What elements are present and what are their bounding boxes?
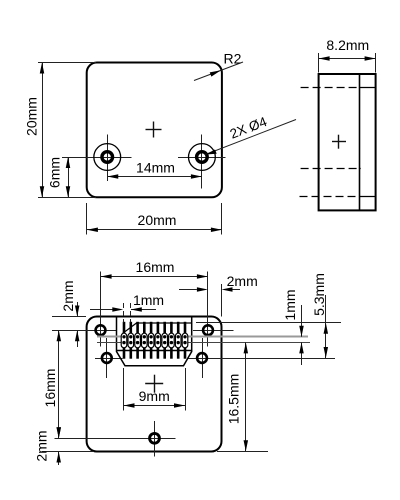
- dimension 20mm horizontal bottom: [87, 203, 222, 235]
- svg-text:1mm: 1mm: [133, 292, 164, 308]
- leader 2X D4: [206, 114, 297, 155]
- svg-text:6mm: 6mm: [47, 157, 63, 188]
- corner circle mid-right: [197, 353, 207, 363]
- front view center mark: [146, 122, 162, 138]
- connector contact dots: [122, 335, 186, 344]
- corner circle mid-right centerlines: [188, 338, 336, 378]
- corner circle top-right centerlines: [193, 272, 234, 347]
- dimension 2mm top right: [179, 273, 258, 317]
- side view hidden line bottom: [300, 196, 376, 198]
- svg-text:14mm: 14mm: [136, 159, 175, 175]
- pin pitch extension lines (dashed): [124, 303, 131, 323]
- corner circle mid-left centerlines: [95, 338, 123, 378]
- bottom hole centerlines: [55, 421, 176, 457]
- side view hidden line middle: [301, 168, 361, 170]
- svg-text:16.5mm: 16.5mm: [226, 374, 242, 425]
- svg-text:R2: R2: [224, 51, 242, 67]
- bottom view center mark: [145, 375, 163, 393]
- hole left (2X D4): [94, 144, 121, 171]
- dimension 20mm vertical left: [24, 63, 97, 198]
- svg-text:20mm: 20mm: [138, 212, 177, 228]
- svg-text:1mm: 1mm: [282, 289, 298, 320]
- side view hidden line top: [301, 87, 376, 89]
- side view outline: [319, 74, 376, 210]
- connector row centerlines: [97, 337, 310, 343]
- svg-text:16mm: 16mm: [136, 259, 175, 275]
- connector housing outline: [117, 317, 192, 366]
- dimension 1mm top: [90, 292, 164, 312]
- corner circle mid-left: [102, 353, 112, 363]
- svg-text:2mm: 2mm: [60, 280, 76, 311]
- corner circle top-right: [203, 325, 213, 335]
- svg-text:20mm: 20mm: [24, 97, 40, 136]
- svg-text:2mm: 2mm: [34, 430, 50, 461]
- dimension 8.2mm: [319, 37, 376, 73]
- bottom hole: [150, 433, 160, 443]
- extension line housing top right: [196, 322, 341, 324]
- dimension 16mm left: [42, 330, 61, 438]
- dimension 2mm left top: [52, 280, 86, 347]
- bottom view board outline: [87, 317, 222, 452]
- front view board outline: [87, 63, 222, 198]
- dimension 1mm right: [282, 289, 304, 365]
- dimension 2mm left bottom: [34, 425, 94, 465]
- svg-text:16mm: 16mm: [42, 369, 58, 408]
- leader R2: [194, 51, 243, 81]
- connector pins bottom row: [124, 348, 185, 359]
- dimension 6mm vertical: [47, 157, 71, 197]
- hole right centerlines: [178, 135, 226, 189]
- dimension 5.3mm right: [311, 273, 328, 358]
- dimension 14mm horizontal: [107, 159, 202, 178]
- corner circle top-left: [96, 325, 106, 335]
- svg-text:8.2mm: 8.2mm: [326, 37, 369, 53]
- dimension 16.5mm right: [217, 342, 268, 451]
- svg-text:5.3mm: 5.3mm: [311, 273, 327, 316]
- svg-text:9mm: 9mm: [139, 388, 170, 404]
- hole right (2X D4): [189, 144, 216, 171]
- dimension 16mm top: [101, 259, 208, 280]
- corner circle top-left centerlines: [52, 272, 116, 347]
- connector pins top row: [124, 322, 185, 333]
- hole left centerlines: [62, 135, 132, 182]
- side view center mark: [332, 135, 346, 149]
- svg-text:2mm: 2mm: [227, 273, 258, 289]
- connector contact stadiums: [121, 333, 188, 348]
- dimension 9mm: [124, 368, 186, 411]
